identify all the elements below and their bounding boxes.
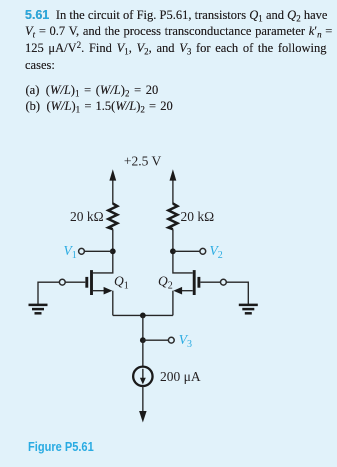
wire right branch resistor to drain corner [173, 229, 193, 273]
resistor R1 20k left [108, 204, 117, 230]
svg-text:20 kΩ: 20 kΩ [70, 209, 104, 224]
ground right [239, 305, 258, 313]
label V3 [179, 332, 192, 350]
label V2 [210, 243, 223, 261]
terminal circle Q2 gate [221, 279, 227, 285]
resistor R2 value label [181, 209, 215, 224]
transistor Q1 source lead with arrow [93, 287, 112, 295]
wire V3 node to current source [142, 340, 144, 366]
node V3 junction dot [140, 337, 146, 343]
terminal circle Q1 gate [59, 279, 65, 285]
node V2 junction dot [170, 248, 176, 254]
ground left [29, 305, 48, 313]
wire common source rail [113, 314, 173, 316]
wire Q2 source down to common rail [172, 291, 174, 316]
wire Q1 gate to left terminal and ground [38, 282, 85, 304]
wire node to V2 terminal [173, 250, 200, 252]
resistor R1 value label [70, 209, 104, 224]
wire current source to negative supply arrow [139, 386, 147, 423]
label Q2 [158, 274, 173, 292]
label Q1 [114, 274, 129, 292]
supply label +2.5 V [124, 154, 162, 169]
left supply arrow [109, 169, 116, 204]
transistor Q1 channel bar [90, 270, 93, 295]
current source value label 200 uA [160, 369, 201, 384]
transistor Q2 channel bar [193, 270, 196, 295]
node V1 junction dot [110, 248, 116, 254]
svg-text:20 kΩ: 20 kΩ [181, 209, 215, 224]
svg-text:Q1: Q1 [114, 274, 129, 292]
wire junction down to V3 node [142, 315, 144, 340]
wire V1 terminal to node [85, 250, 113, 252]
svg-text:V3: V3 [179, 332, 192, 350]
terminal circle V3 [168, 337, 174, 343]
svg-text:+2.5 V: +2.5 V [124, 154, 162, 169]
wire Q2 gate to right terminal and ground [200, 282, 248, 304]
wire Q1 source down to common rail [112, 291, 114, 316]
right supply arrow [170, 169, 177, 204]
terminal circle V1 [79, 248, 85, 254]
svg-text:V2: V2 [210, 243, 223, 261]
terminal circle V2 [200, 248, 206, 254]
transistor Q1 gate bar [85, 277, 88, 288]
transistor Q2 source lead with arrow [173, 287, 192, 295]
node common source junction dot [140, 313, 146, 319]
label V1 [64, 243, 77, 261]
svg-text:V1: V1 [64, 243, 77, 261]
current source I1 circle [133, 367, 152, 386]
svg-text:200 μA: 200 μA [160, 369, 201, 384]
wire left branch resistor to drain corner [93, 229, 113, 273]
resistor R2 20k right [168, 204, 177, 230]
svg-text:Q2: Q2 [158, 274, 173, 292]
transistor Q2 gate bar [197, 277, 200, 288]
wire V3 node to terminal [143, 339, 169, 341]
